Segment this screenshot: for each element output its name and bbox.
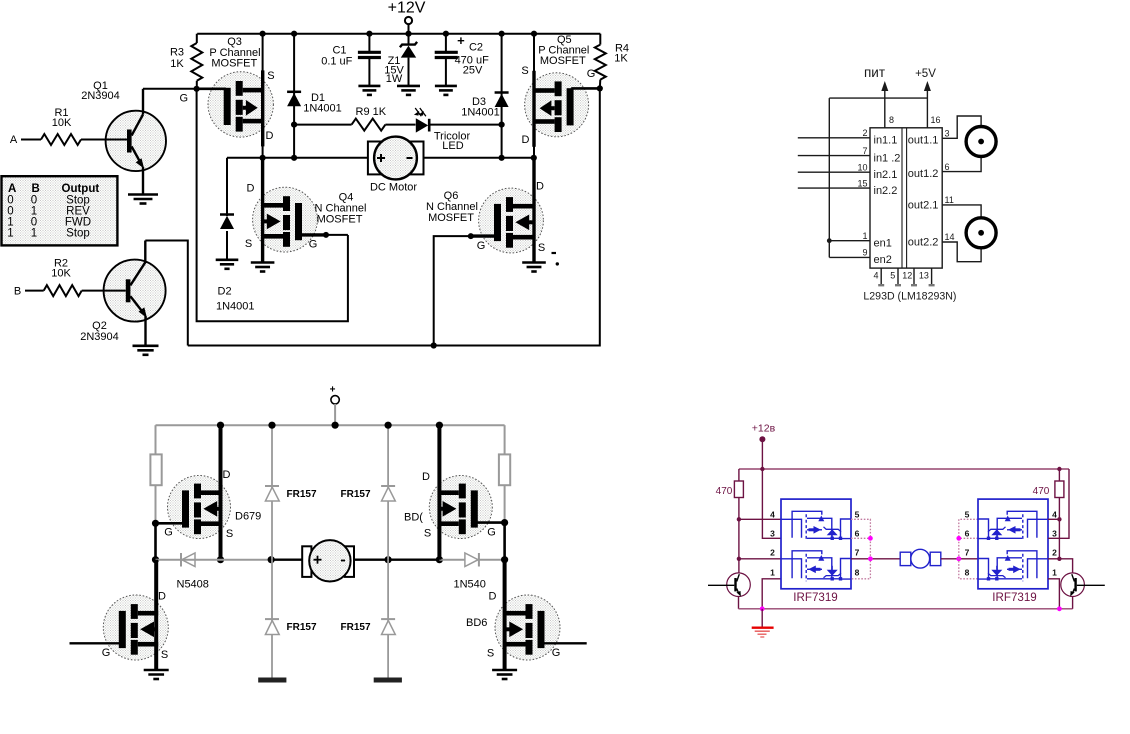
node right FET drain on rail xyxy=(436,422,443,429)
wire Q5 source to +12V rail xyxy=(531,31,537,37)
wire motor to right ic pin7 xyxy=(941,558,978,560)
node right gate xyxy=(501,519,508,526)
wire ground stub xyxy=(761,609,763,627)
svg-text:S: S xyxy=(226,528,233,540)
node left pin4 xyxy=(737,517,741,521)
wire right resistor drop xyxy=(1058,469,1060,481)
svg-text:2: 2 xyxy=(770,547,775,557)
mosfets inside right IRF7319 xyxy=(978,511,1048,581)
wire pin2 node to BJT xyxy=(738,559,740,573)
wire Q5/Q6 gate rail down right side xyxy=(188,88,600,345)
svg-text:1N4001: 1N4001 xyxy=(216,301,255,313)
wire Q3 gate lead xyxy=(197,88,226,91)
svg-text:LED: LED xyxy=(442,140,463,152)
node D1 to R9 junction xyxy=(291,122,297,128)
svg-text:C2: C2 xyxy=(469,42,483,54)
svg-text:1: 1 xyxy=(7,227,13,239)
motor M2 xyxy=(966,218,996,248)
fr157 column upper-left xyxy=(271,425,273,560)
svg-text:IRF7319: IRF7319 xyxy=(793,591,837,604)
svg-text:out1.2: out1.2 xyxy=(908,168,939,180)
wire motor line left black xyxy=(271,559,302,561)
wire en2 pin 9 xyxy=(829,256,870,258)
wire motor line right segment xyxy=(424,157,534,159)
svg-text:en2: en2 xyxy=(874,254,892,266)
node left gate xyxy=(152,520,159,527)
svg-text:+: + xyxy=(330,385,336,396)
wire D2 branch from motor line xyxy=(226,158,228,216)
wire enable tie to +5V xyxy=(829,97,927,99)
svg-text:L293D (LM18293N): L293D (LM18293N) xyxy=(863,291,956,303)
svg-text:IRF7319: IRF7319 xyxy=(992,591,1036,604)
svg-text:14: 14 xyxy=(945,232,955,242)
node FR157 left on rail xyxy=(268,422,275,429)
svg-text:R3: R3 xyxy=(170,47,184,59)
node right resistor on rail xyxy=(1057,467,1061,471)
svg-text:S: S xyxy=(245,238,252,250)
svg-text:Stop: Stop xyxy=(66,227,90,239)
wire pin6 dotted xyxy=(851,537,870,539)
svg-text:8: 8 xyxy=(889,115,894,125)
node Q6 gate junction xyxy=(468,233,474,239)
dc motor bottom-left xyxy=(302,546,311,577)
mosfet Q3 P-channel xyxy=(208,72,273,137)
node pin7 magenta xyxy=(868,556,873,561)
svg-text:1: 1 xyxy=(770,567,775,577)
svg-text:R9 1K: R9 1K xyxy=(356,106,387,118)
wire lower-left gate lead xyxy=(70,642,120,644)
transistor Q2 2N3904 xyxy=(104,260,166,322)
diode FR157 lower-right xyxy=(381,618,395,620)
wire bottom rail xyxy=(739,608,1073,610)
wire Q1/Q3 gate loop to Q4 gate xyxy=(197,89,348,321)
svg-text:MOSFET: MOSFET xyxy=(428,212,474,224)
wire pin2 into ic xyxy=(739,558,781,560)
wire Q6 gate lead xyxy=(471,234,495,237)
node right pin1 magenta xyxy=(1057,606,1062,611)
ground Q2 emitter xyxy=(133,344,159,347)
ground below C2 xyxy=(435,85,457,88)
wire right pin1 to bottom rail xyxy=(1048,579,1059,609)
svg-text:B: B xyxy=(14,286,21,298)
svg-text:10: 10 xyxy=(857,162,867,172)
ground pin 5 xyxy=(897,268,899,285)
wire Q4 gate lead xyxy=(301,233,326,236)
svg-text:G: G xyxy=(552,647,561,659)
svg-text:1: 1 xyxy=(31,227,37,239)
node D679 drain on rail xyxy=(217,422,224,429)
svg-text:+12в: +12в xyxy=(752,423,776,435)
wire motor line left gray xyxy=(156,559,272,561)
svg-text:out2.1: out2.1 xyxy=(908,199,939,211)
wire right resistor to pin4 node xyxy=(1058,498,1060,520)
svg-text:4: 4 xyxy=(770,509,775,519)
diode D3 1N4001 xyxy=(499,31,505,37)
svg-text:D679: D679 xyxy=(235,511,261,523)
wire R1 to Q1 base xyxy=(81,139,127,141)
resistor 470 left xyxy=(734,481,743,498)
wire Q2 emitter to ground xyxy=(144,316,146,345)
svg-text:FR157: FR157 xyxy=(287,622,317,633)
dc motor bottom-right xyxy=(900,552,911,565)
node pin6 magenta xyxy=(868,536,873,541)
svg-text:S: S xyxy=(267,70,274,82)
ground Q1 emitter xyxy=(128,193,158,196)
wire Q6 drain-source pin line xyxy=(532,158,535,262)
wire Q4 gate to loop xyxy=(326,234,348,236)
svg-text:1N540: 1N540 xyxy=(454,579,486,591)
svg-text:D: D xyxy=(489,591,497,603)
wire input in2.1 pin 10 xyxy=(798,171,870,173)
node D3 to LED wire junction xyxy=(499,122,505,128)
ground Q4 source xyxy=(251,261,275,264)
mosfet D679 upper-left xyxy=(168,476,231,539)
terminal dot +12в xyxy=(759,436,765,442)
svg-text:B: B xyxy=(32,183,40,195)
diode D2 1N4001 xyxy=(220,213,234,216)
node Q5 gate, R4 junction xyxy=(597,85,603,91)
wire enable vertical xyxy=(828,98,830,257)
wire input in1.2 pin 7 xyxy=(798,155,870,157)
transistor right BJT xyxy=(1061,573,1085,597)
svg-text:7: 7 xyxy=(862,146,867,156)
svg-text:D: D xyxy=(266,130,274,142)
motor M1 xyxy=(966,127,996,157)
transistor Q1 2N3904 xyxy=(106,111,166,171)
wire Q3 source to +12V rail xyxy=(260,31,266,37)
wire pin5 tie dotted xyxy=(851,519,870,579)
wire R2 to Q2 base xyxy=(82,290,126,292)
wire BD drain-source pin line xyxy=(437,425,441,560)
node G junction of Q1 collector, R3, Q3 gate xyxy=(194,86,200,92)
wire input in1.1 pin 2 xyxy=(798,137,870,139)
svg-text:+5V: +5V xyxy=(915,68,936,80)
svg-text:G: G xyxy=(477,240,486,252)
svg-text:in1.1: in1.1 xyxy=(874,135,898,147)
diode FR157 upper-right xyxy=(381,485,395,487)
wire left gate node to motor line xyxy=(154,523,157,559)
wire Q3 drain to motor line xyxy=(262,146,264,158)
svg-text:FR157: FR157 xyxy=(341,489,371,500)
wire D679 drain-source pin line xyxy=(219,425,223,560)
wire input B to R2 xyxy=(25,290,44,292)
node ground junction magenta xyxy=(760,606,765,611)
svg-text:D: D xyxy=(247,183,255,195)
wire right BJT emitter to bottom rail xyxy=(1072,597,1074,609)
svg-text:13: 13 xyxy=(919,271,929,281)
svg-text:D: D xyxy=(223,469,231,481)
svg-text:16: 16 xyxy=(931,115,941,125)
mosfet Q4 N-channel xyxy=(253,187,318,252)
wire lower-left drain-source pin line xyxy=(154,560,158,671)
svg-text:BD(: BD( xyxy=(404,512,423,524)
wire pin7 out xyxy=(851,558,900,560)
svg-text:9: 9 xyxy=(862,248,867,258)
node battery + on rail xyxy=(332,422,339,429)
mosfet lower-left xyxy=(103,595,168,660)
node Q4 gate junction xyxy=(323,232,329,238)
svg-text:S: S xyxy=(521,65,528,77)
diode D1 1N4001 xyxy=(291,31,297,37)
diode 1N540 xyxy=(478,553,480,567)
svg-text:MOSFET: MOSFET xyxy=(317,214,363,226)
wire pin1 to bottom rail xyxy=(762,579,781,609)
wire LED to D3 junction xyxy=(429,124,502,126)
fr157 column lower-right xyxy=(387,560,389,678)
wire left resistor to pin4 node xyxy=(738,498,740,520)
svg-text:3: 3 xyxy=(770,528,775,538)
svg-text:in2.1: in2.1 xyxy=(874,169,898,181)
svg-text:D: D xyxy=(522,134,530,146)
svg-text:out2.2: out2.2 xyxy=(908,236,939,248)
svg-text:S: S xyxy=(161,649,168,661)
capacitor C2 470uF 25V xyxy=(443,31,449,37)
svg-text:D2: D2 xyxy=(218,286,232,298)
wire out1.2 pin 6 to motor M1 bottom xyxy=(942,157,981,172)
svg-text:D: D xyxy=(158,591,166,603)
svg-text:1W: 1W xyxy=(386,73,403,85)
mosfets inside left IRF7319 xyxy=(781,511,851,581)
svg-text:1K: 1K xyxy=(170,58,184,70)
resistor right gate pull xyxy=(499,454,510,485)
wire Q1 emitter to ground xyxy=(142,167,144,194)
svg-text:пит: пит xyxy=(864,65,885,80)
node motor line FR157 left xyxy=(268,556,275,563)
wire motor line right gray xyxy=(439,559,504,561)
node right pin4 xyxy=(1057,517,1061,521)
ic divider lines xyxy=(901,128,903,268)
transistor left BJT xyxy=(727,573,751,597)
svg-text:8: 8 xyxy=(965,567,970,577)
svg-text:3: 3 xyxy=(1052,528,1057,538)
svg-text:G: G xyxy=(180,93,189,105)
mosfet Q5 P-channel xyxy=(525,73,589,137)
ic IRF7319 right body xyxy=(978,499,1048,589)
svg-text:1: 1 xyxy=(862,231,867,241)
resistor R3 1K xyxy=(196,34,198,43)
wire right pin2 into ic xyxy=(1048,558,1059,560)
ground red xyxy=(752,627,774,629)
svg-text:2N3904: 2N3904 xyxy=(81,90,120,102)
svg-text:D: D xyxy=(536,181,544,193)
svg-text:BD6: BD6 xyxy=(466,617,487,629)
svg-text:15: 15 xyxy=(857,178,867,188)
wire en1 pin 1 xyxy=(829,240,870,242)
diode FR157 lower-left xyxy=(265,618,279,620)
wire out1.1 pin 3 to motor M1 top xyxy=(942,116,981,138)
svg-text:1K: 1K xyxy=(614,53,628,65)
svg-text:470: 470 xyxy=(1033,486,1050,497)
svg-text:6: 6 xyxy=(945,162,950,172)
svg-text:2N3904: 2N3904 xyxy=(80,331,119,343)
mosfet lower-right xyxy=(495,595,560,660)
node right pin6 magenta xyxy=(956,536,961,541)
terminal bar lower-left xyxy=(258,678,286,683)
LED tricolor xyxy=(416,118,428,132)
wire right pin4 into ic xyxy=(1048,518,1059,520)
svg-text:5: 5 xyxy=(855,509,860,519)
wire right resistor to gate node xyxy=(504,485,506,522)
wire top +12V rail xyxy=(197,33,600,35)
fr157 column lower-left xyxy=(271,560,273,678)
node lower-right drain on motor line xyxy=(501,556,508,563)
node right pin2 xyxy=(1057,557,1061,561)
resistor R2 10K xyxy=(44,285,82,296)
svg-text:12: 12 xyxy=(902,271,912,281)
resistor R4 1K xyxy=(599,34,601,45)
svg-text:10K: 10K xyxy=(51,268,71,280)
wire Q1 collector to node G xyxy=(143,88,197,90)
svg-text:+: + xyxy=(457,33,465,48)
svg-text:A: A xyxy=(10,134,18,146)
svg-text:G: G xyxy=(102,647,111,659)
svg-text:D: D xyxy=(422,471,430,483)
node motor line FR157 right xyxy=(385,556,392,563)
diode FR157 upper-left xyxy=(265,485,279,487)
svg-text:7: 7 xyxy=(965,547,970,557)
node right FET source on motor line xyxy=(436,556,443,563)
wire input A to R1 xyxy=(21,139,41,141)
wire Q4 drain-source pin line xyxy=(261,158,264,262)
wire left rail drop xyxy=(155,425,157,454)
svg-text:4: 4 xyxy=(1052,509,1057,519)
wire out2.2 pin 14 to motor M2 bottom xyxy=(942,242,981,262)
node D679 source on motor line xyxy=(217,556,224,563)
svg-text:in2.2: in2.2 xyxy=(874,185,898,197)
svg-text:470: 470 xyxy=(716,486,733,497)
svg-text:MOSFET: MOSFET xyxy=(211,58,257,70)
svg-text:2: 2 xyxy=(1052,547,1057,557)
wire Q5 gate lead xyxy=(571,87,600,90)
svg-text:6: 6 xyxy=(965,528,970,538)
wire pin4 into ic xyxy=(739,518,781,520)
wire +12в feed xyxy=(761,442,763,470)
mosfet Q6 N-channel xyxy=(479,188,544,253)
svg-text:4: 4 xyxy=(873,271,878,281)
wire input in2.2 pin 15 xyxy=(798,187,870,189)
svg-text:S: S xyxy=(487,648,494,660)
ground lower-left source xyxy=(144,669,169,672)
svg-text:5: 5 xyxy=(965,509,970,519)
power arrow +5V pin 16 xyxy=(926,89,928,128)
svg-text:G: G xyxy=(587,68,596,80)
svg-text:1: 1 xyxy=(1052,567,1057,577)
diode N5408 xyxy=(180,553,182,567)
svg-text:S: S xyxy=(424,528,431,540)
wire D3 junction down to motor line xyxy=(501,125,503,158)
wire left resistor to gate node xyxy=(155,485,157,523)
wire right gate node to motor line xyxy=(503,523,506,560)
svg-text:FR157: FR157 xyxy=(341,622,371,633)
node left motor line xyxy=(152,556,159,563)
wire D679 gate lead xyxy=(156,522,184,525)
svg-text:in1 .2: in1 .2 xyxy=(874,152,901,164)
wire right pin2 to BJT xyxy=(1059,559,1072,573)
ground pin 4 xyxy=(880,268,882,285)
svg-text:A: A xyxy=(8,183,16,195)
wire right pin5 tie dotted xyxy=(959,519,978,579)
wire R9 row xyxy=(294,124,352,126)
node left pin2 xyxy=(737,557,741,561)
svg-text:5: 5 xyxy=(890,271,895,281)
ground below C1 xyxy=(358,85,380,88)
wire + terminal to rail xyxy=(334,404,336,425)
svg-text:1N4001: 1N4001 xyxy=(303,103,342,115)
mosfet BD upper-right xyxy=(429,476,492,539)
node Q6 gate branch on bottom rail xyxy=(431,342,437,348)
svg-text:G: G xyxy=(487,527,496,539)
ground below D2 xyxy=(216,258,239,261)
wire left rail corner to resistor xyxy=(738,469,740,481)
node D1 to motor line junction xyxy=(291,155,297,161)
svg-text:N5408: N5408 xyxy=(177,579,209,591)
capacitor C1 0.1uF xyxy=(366,31,372,37)
dc motor xyxy=(368,142,424,175)
resistor left gate pull xyxy=(150,454,161,485)
svg-text:out1.1: out1.1 xyxy=(908,135,939,147)
wire right pin6 dotted xyxy=(959,537,978,539)
wire motor line left segment xyxy=(227,157,368,159)
node FR157 right on rail xyxy=(385,422,392,429)
wire lower-right gate lead xyxy=(544,642,587,644)
wire Q6 gate branch xyxy=(434,236,471,345)
svg-text:25V: 25V xyxy=(463,64,483,76)
svg-text:0.1 uF: 0.1 uF xyxy=(321,56,352,68)
terminal bar lower-right xyxy=(374,678,402,683)
resistor 470 right xyxy=(1055,481,1064,498)
svg-text:7: 7 xyxy=(855,547,860,557)
wire BD gate lead xyxy=(477,521,505,524)
svg-text:2: 2 xyxy=(862,128,867,138)
ground lower-right source xyxy=(492,669,517,672)
wire right chain pin4 to pin2 xyxy=(1058,519,1060,559)
wire Q5 drain to motor line xyxy=(533,146,535,158)
ic L293D body xyxy=(870,128,942,268)
svg-text:G: G xyxy=(164,527,173,539)
svg-text:en1: en1 xyxy=(874,237,892,249)
ground pin 12 xyxy=(913,268,915,285)
node +12в on rail xyxy=(760,467,764,471)
node en1 junction xyxy=(827,238,832,243)
svg-text:10K: 10K xyxy=(52,117,72,129)
truth table A B Output xyxy=(2,176,118,245)
ground Q6 source xyxy=(522,261,546,264)
wire top rail gray xyxy=(156,424,505,426)
fr157 column upper-right xyxy=(387,425,389,560)
wire out2.1 pin 11 to motor M2 top xyxy=(942,205,981,217)
wire Q2 collector riser xyxy=(145,241,188,346)
svg-text:6: 6 xyxy=(855,528,860,538)
svg-text:G: G xyxy=(309,239,318,251)
resistor R9 1K xyxy=(352,119,386,131)
svg-text:MOSFET: MOSFET xyxy=(540,55,586,67)
wire +12в down to pin3 xyxy=(762,469,781,538)
svg-text:Output: Output xyxy=(62,183,100,195)
svg-text:3: 3 xyxy=(945,129,950,139)
wire lower-right drain-source pin line xyxy=(503,560,507,671)
svg-text:11: 11 xyxy=(945,195,954,205)
svg-text:S: S xyxy=(538,242,545,254)
wire right rail drop xyxy=(504,425,506,454)
zener Z1 15V 1W xyxy=(405,31,411,37)
ground below Z1 xyxy=(397,85,420,88)
resistor R1 10K xyxy=(41,134,81,145)
node right pin7 magenta xyxy=(956,556,961,561)
wire left chain pin4 to pin2 xyxy=(738,519,740,559)
wire top rail maroon xyxy=(739,468,1069,470)
mark dash next to Q6 ground xyxy=(552,252,557,254)
ground pin 13 xyxy=(931,268,933,285)
